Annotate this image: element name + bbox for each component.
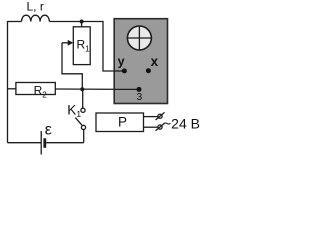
terminal y dot <box>122 68 127 73</box>
wire bottom rail left <box>8 142 42 144</box>
wire R2 left <box>8 88 16 90</box>
wire left rail <box>7 22 9 143</box>
oscilloscope screen <box>127 26 151 50</box>
wire down to y terminal <box>103 21 124 71</box>
wire P lower terminal <box>144 126 159 128</box>
node junction top <box>80 20 84 24</box>
svg-text:3: 3 <box>137 92 143 103</box>
wire top segment right <box>49 21 103 23</box>
switch K1 <box>75 89 85 143</box>
wire top segment left <box>7 21 22 23</box>
wire into 3 terminal overlay <box>114 88 139 90</box>
rheostat wiper arrow <box>62 40 73 46</box>
wire into y terminal overlay <box>114 70 124 72</box>
node junction middle <box>80 87 84 91</box>
terminal 3 dot <box>137 87 142 92</box>
svg-text:x: x <box>151 54 159 69</box>
plug terminal upper <box>156 112 165 120</box>
resistor R1 <box>73 27 90 65</box>
wire P upper terminal <box>144 116 159 118</box>
svg-text:ε: ε <box>45 121 52 138</box>
wire middle horizontal <box>55 88 139 90</box>
wire bottom rail right <box>46 142 83 144</box>
svg-text:y: y <box>118 54 125 68</box>
plug terminal lower <box>156 123 165 131</box>
terminal x dot <box>146 68 151 73</box>
wire stub to R1 top <box>81 22 83 27</box>
inductor L,r <box>22 15 50 21</box>
svg-text:R2: R2 <box>34 83 48 99</box>
svg-text:~24 В: ~24 В <box>163 115 200 131</box>
svg-text:K1: K1 <box>67 103 81 119</box>
svg-text:P: P <box>118 114 127 129</box>
resistor R2 <box>16 83 55 95</box>
power supply P box <box>96 113 144 132</box>
battery EMF <box>41 131 45 155</box>
svg-text:L, r: L, r <box>27 0 44 14</box>
wire wiper branch <box>62 43 82 89</box>
svg-text:R1: R1 <box>77 38 91 54</box>
oscilloscope body <box>114 19 167 104</box>
